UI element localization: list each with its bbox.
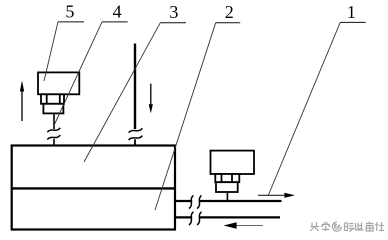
- pipe break mark: [129, 136, 143, 140]
- svg-text:5: 5: [65, 1, 74, 21]
- pipe 3 (vertical supply pipe): [134, 44, 136, 130]
- glyph 条: [321, 222, 330, 231]
- leader line to 4: [54, 22, 103, 127]
- device U5 bottom box: [43, 104, 63, 114]
- pipe break mark: [47, 128, 60, 132]
- leader line to 1: [268, 22, 340, 196]
- leader line to 2: [155, 23, 216, 210]
- pipe break mark: [189, 195, 193, 208]
- down flow arrow: [149, 84, 153, 114]
- device U1 middle band: [215, 174, 239, 182]
- pipe break mark: [189, 212, 193, 225]
- glyph 通: [356, 223, 364, 231]
- lower pipe continuation: [200, 216, 281, 218]
- lower pipe (return): [175, 216, 192, 218]
- tank (two-compartment water tank): [12, 146, 175, 230]
- label 3: [160, 2, 186, 23]
- leader line to 3: [84, 23, 160, 162]
- label 1: [340, 2, 365, 23]
- right flow arrow (outlet): [258, 193, 295, 198]
- wire: device U1 stub to pipe: [226, 192, 228, 201]
- upper pipe continuation: [200, 200, 282, 202]
- upper pipe (outlet): [175, 200, 192, 202]
- watermark "头条@暖通南社" drawn as vector strokes: [311, 222, 385, 232]
- svg-text:2: 2: [225, 2, 234, 22]
- device U1 top box: [211, 151, 255, 174]
- pipe break mark: [197, 212, 201, 225]
- tank divider: [12, 187, 175, 189]
- pipe break mark: [197, 195, 201, 208]
- label 4: [102, 1, 128, 22]
- wire: pipe stub to tank top: [53, 139, 55, 146]
- leader line to 5: [44, 22, 58, 81]
- glyph 社: [375, 222, 384, 231]
- svg-text:1: 1: [347, 2, 356, 22]
- glyph 南: [366, 222, 374, 232]
- glyph @: [332, 222, 341, 231]
- device U5 top box: [38, 72, 79, 94]
- wire: pipe from device U5 down: [53, 113, 55, 129]
- label 2: [216, 2, 241, 23]
- pipe break mark: [129, 128, 143, 132]
- label 5: [58, 1, 84, 22]
- device U1 bottom box: [216, 182, 238, 192]
- up flow arrow: [20, 81, 24, 122]
- glyph 头: [311, 222, 320, 231]
- svg-text:4: 4: [113, 1, 122, 21]
- pipe break mark: [47, 135, 60, 139]
- left flow arrow (return): [224, 222, 263, 228]
- device U5 middle band: [41, 94, 64, 104]
- wire: pipe stub to tank top: [134, 139, 136, 146]
- glyph 暖: [345, 223, 354, 232]
- svg-text:3: 3: [169, 2, 178, 22]
